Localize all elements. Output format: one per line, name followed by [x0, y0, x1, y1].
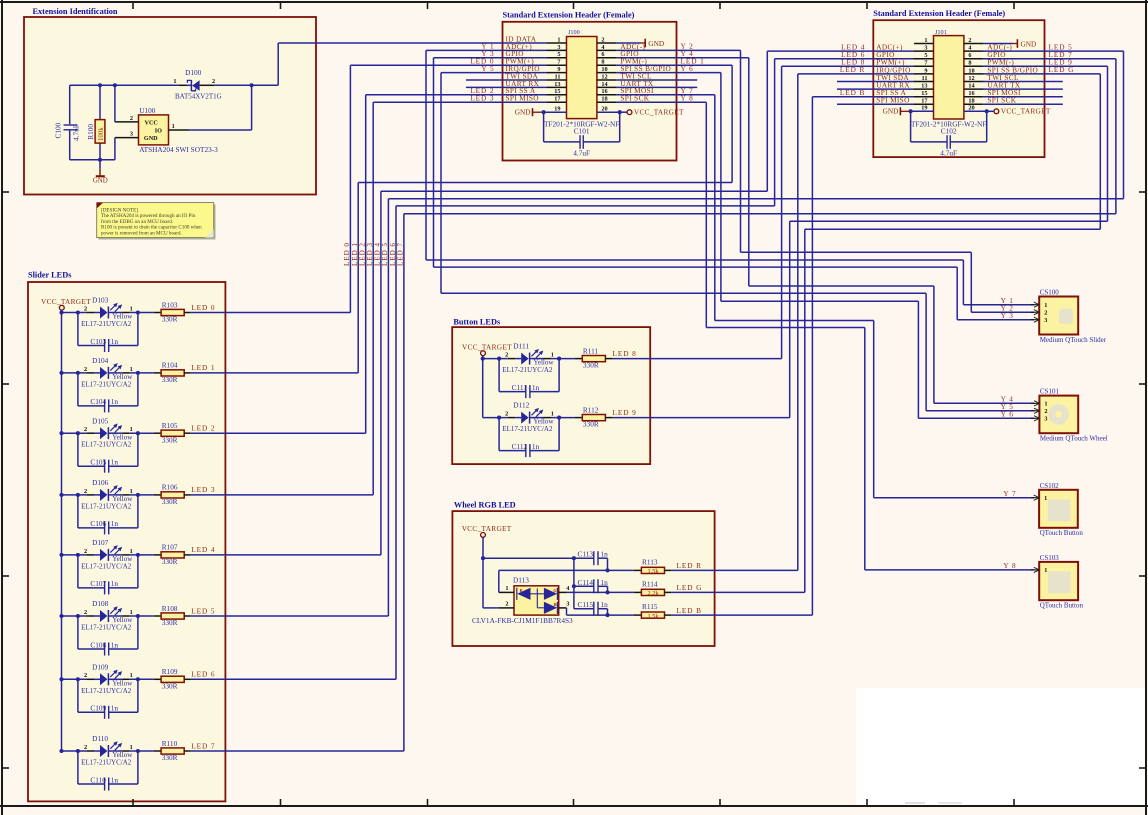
net label Y 1 [481, 42, 494, 51]
wire net LED_1 [358, 65, 732, 373]
capacitor C110 1n [78, 751, 138, 791]
svg-text:1.5k: 1.5k [647, 613, 659, 620]
svg-text:EL17-21UYC/A2: EL17-21UYC/A2 [81, 562, 132, 570]
J101 pin name TWI SCL [987, 73, 1019, 82]
svg-text:7: 7 [557, 59, 560, 66]
svg-text:1: 1 [172, 123, 175, 130]
wire J101 pin2 to GND [983, 43, 1017, 45]
net label LED 4 (rotated) [374, 242, 382, 266]
svg-text:9: 9 [924, 67, 927, 74]
section box: Wheel RGB LED [452, 511, 714, 646]
led D109 [81, 662, 133, 694]
J100 pin name ADC(+) [506, 42, 533, 51]
svg-text:EL17-21UYC/A2: EL17-21UYC/A2 [81, 687, 132, 695]
svg-text:20: 20 [968, 105, 974, 112]
svg-text:6: 6 [968, 52, 971, 59]
led D107 anode wire [62, 553, 87, 557]
svg-text:LED R: LED R [677, 561, 702, 570]
wire stub TWI_SCL at J100 [617, 79, 698, 81]
svg-text:1n: 1n [601, 578, 609, 587]
net label LED 0 [191, 303, 215, 312]
wire net LED_6 [396, 59, 914, 680]
J101 pin 7 lead [914, 60, 934, 67]
section box: Standard Extension Header (Female) [503, 22, 677, 161]
ground symbol at J101 pin 19 [883, 107, 911, 116]
wire net LED_9 [790, 66, 1108, 417]
svg-text:2: 2 [84, 744, 87, 751]
svg-text:C106: C106 [90, 519, 106, 528]
svg-text:1: 1 [924, 37, 927, 44]
J100 pin name TWI SDA [506, 71, 539, 80]
J101 pin name TWI SDA [876, 73, 909, 82]
svg-text:1.5k: 1.5k [647, 568, 659, 575]
J101 pin 19 lead [911, 105, 934, 112]
svg-text:14: 14 [968, 83, 975, 90]
net label Y 7 at CS102 [1003, 489, 1016, 498]
net label LED 9 [613, 408, 637, 417]
svg-text:D104: D104 [92, 356, 109, 365]
qtouch sensor CS100 [1031, 289, 1107, 344]
svg-text:1n: 1n [111, 337, 119, 346]
section title: Button LEDs [453, 318, 501, 327]
svg-text:Medium QTouch Wheel: Medium QTouch Wheel [1040, 435, 1108, 443]
wire net Y_2 [617, 50, 1035, 312]
J101 pin name ADC(+) [876, 43, 903, 52]
svg-text:Button LEDs: Button LEDs [453, 318, 501, 327]
svg-text:C111: C111 [512, 383, 528, 392]
net label Y 8 at CS103 [1003, 561, 1016, 570]
svg-text:LED 6: LED 6 [191, 670, 215, 679]
net label LED 2 (rotated) [359, 242, 367, 266]
J101 pin name UART RX [876, 81, 910, 90]
resistor R100 [86, 85, 105, 160]
svg-text:1: 1 [130, 426, 133, 433]
J101 pin 16 lead [964, 90, 984, 97]
svg-text:R107: R107 [162, 543, 178, 552]
net label LED 8 [841, 58, 865, 67]
svg-text:LED 1: LED 1 [191, 363, 215, 372]
svg-text:Y 7: Y 7 [1003, 489, 1016, 498]
svg-text:1: 1 [173, 78, 176, 85]
J101 pin 9 lead [914, 67, 934, 74]
svg-text:1: 1 [505, 585, 508, 592]
svg-text:R105: R105 [162, 421, 178, 430]
capacitor C108 1n [78, 616, 138, 656]
wire R114 to net LED_G [671, 591, 805, 593]
svg-text:C114: C114 [578, 578, 594, 587]
net label LED 7 [1049, 50, 1073, 59]
J100 pin name PWM(-) [620, 57, 647, 66]
svg-text:R112: R112 [583, 405, 599, 414]
wire stub TWI_SCL at J101 [982, 81, 1062, 83]
wire resistor R111 to net LED 8 [612, 358, 782, 360]
svg-text:2: 2 [84, 305, 87, 312]
svg-text:7: 7 [924, 60, 927, 67]
wire net LED_B [812, 97, 914, 615]
J100 pin 2 lead [597, 36, 617, 43]
svg-text:QTouch Button: QTouch Button [1040, 602, 1084, 610]
net label LED 2 [470, 86, 494, 95]
resistor R107 330R [154, 543, 191, 566]
connector J101 body [934, 29, 964, 119]
led D112 [502, 401, 554, 433]
J101 pin name SPI MISO [876, 96, 909, 105]
resistor R109 330R [154, 667, 191, 690]
J100 pin 4 lead [597, 44, 617, 51]
svg-text:2: 2 [968, 37, 971, 44]
svg-text:GND: GND [1021, 40, 1037, 49]
net label Y 1 at CS100 [1001, 296, 1014, 305]
svg-text:D110: D110 [92, 734, 108, 743]
section box: Button LEDs [452, 327, 650, 464]
svg-text:16: 16 [601, 88, 607, 95]
J101 pin name UART TX [987, 81, 1021, 90]
J101 pin 8 lead [964, 60, 984, 67]
J100 pin 8 lead [597, 59, 617, 66]
net label LED 3 [470, 93, 494, 102]
J101 pin name SPI SS B/GPIO [987, 65, 1038, 74]
svg-text:GND: GND [515, 107, 531, 116]
svg-text:19: 19 [921, 105, 927, 112]
resistor R106 330R [154, 483, 191, 506]
led D108 [81, 599, 133, 631]
J101 pin 4 lead [964, 45, 984, 52]
svg-text:R: R [520, 588, 523, 593]
capacitor C112 1n [499, 418, 559, 458]
svg-text:D100: D100 [185, 68, 202, 77]
wire J101 pin20 to capacitor C102 [950, 111, 986, 142]
svg-text:LED 0: LED 0 [191, 303, 215, 312]
svg-text:EL17-21UYC/A2: EL17-21UYC/A2 [502, 366, 553, 374]
svg-text:CLV1A-FKB-CJ1M1F1BB7R4S3: CLV1A-FKB-CJ1M1F1BB7R4S3 [472, 616, 573, 625]
wire J101 pin19 to capacitor C102 [911, 111, 947, 142]
svg-text:D106: D106 [92, 478, 109, 487]
led D106 [81, 478, 133, 510]
svg-text:VCC: VCC [145, 119, 158, 126]
svg-text:Extension Identification: Extension Identification [33, 7, 118, 16]
svg-text:12: 12 [601, 73, 607, 80]
J100 pin 6 lead [597, 51, 617, 58]
svg-text:2: 2 [601, 36, 604, 43]
svg-text:5: 5 [557, 51, 560, 58]
svg-text:D113: D113 [513, 576, 529, 585]
J100 pin 18 lead [597, 96, 617, 103]
net label LED 8 [613, 349, 637, 358]
section title: Extension Identification [33, 7, 118, 16]
net label LED 1 (rotated) [351, 242, 359, 266]
led D103 anode wire [62, 310, 87, 314]
wire stub TWI_SDA at J100 [466, 79, 547, 81]
led D104 [81, 356, 133, 388]
svg-text:1: 1 [1044, 567, 1047, 574]
svg-text:1n: 1n [601, 550, 609, 559]
svg-text:CS102: CS102 [1040, 482, 1060, 490]
net label Y 8 [681, 93, 694, 102]
wire net LED_8 [782, 66, 914, 358]
wire stub SPI_SCK at J101 [982, 103, 1062, 105]
J100 pin 14 lead [597, 81, 617, 88]
J100 pin 5 lead [547, 51, 567, 58]
svg-text:1: 1 [130, 548, 133, 555]
svg-text:18: 18 [601, 96, 607, 103]
svg-text:C105: C105 [90, 458, 106, 467]
svg-text:B: B [554, 602, 557, 607]
svg-text:R104: R104 [162, 361, 178, 370]
svg-text:1n: 1n [111, 704, 119, 713]
J101 pin 15 lead [914, 90, 934, 97]
wire net GND bottom rail in Extension Identification [70, 158, 115, 162]
svg-text:17: 17 [554, 96, 560, 103]
svg-text:C109: C109 [90, 704, 106, 713]
ic U100 ATSHA204 [115, 106, 218, 154]
J101 pin name PWM(+) [876, 58, 905, 67]
svg-text:2: 2 [505, 411, 508, 418]
J101 pin 17 lead [914, 98, 934, 105]
svg-text:330R: 330R [583, 420, 599, 429]
net label LED 6 [191, 670, 215, 679]
net label LED 5 (rotated) [381, 242, 389, 266]
svg-text:Y 6: Y 6 [1001, 409, 1014, 418]
slider VCC rail wire [59, 310, 63, 753]
svg-text:2: 2 [84, 488, 87, 495]
J100 pin name UART TX [620, 79, 654, 88]
svg-text:3: 3 [557, 44, 560, 51]
wire net LED_0 [350, 65, 547, 312]
wire stub SPI_MISO at J101 [837, 103, 914, 105]
svg-text:R111: R111 [583, 346, 599, 355]
resistor R108 330R [154, 604, 191, 627]
svg-text:18: 18 [968, 98, 974, 105]
svg-text:1: 1 [1044, 401, 1047, 408]
svg-text:D107: D107 [92, 538, 109, 547]
J100 pin name IRQ/GPIO [506, 64, 540, 73]
svg-text:330R: 330R [162, 618, 178, 627]
capacitor C100 [54, 85, 81, 160]
wire J100 pin20 to capacitor C101 [583, 112, 619, 142]
power port VCC_TARGET at J100 pin 20 [620, 108, 684, 117]
wire net Y_6 [617, 73, 1035, 419]
resistor R113 1.5k [634, 557, 671, 575]
wire D105 cathode to resistor R105 [130, 431, 154, 435]
svg-text:13: 13 [921, 83, 927, 90]
svg-text:17: 17 [921, 98, 927, 105]
svg-text:1: 1 [1044, 495, 1047, 502]
J101 pin name ADC(-) [987, 43, 1012, 52]
svg-text:1n: 1n [111, 640, 119, 649]
J100 pin 10 lead [597, 66, 617, 73]
svg-text:VCC_TARGET: VCC_TARGET [462, 524, 512, 533]
svg-text:3: 3 [1044, 317, 1047, 324]
J100 pin name GPIO [506, 49, 524, 58]
wire net ID_DATA top rail in Extension Identification [70, 43, 547, 87]
svg-text:Standard Extension Header (Fem: Standard Extension Header (Female) [873, 9, 1005, 18]
svg-text:330R: 330R [162, 557, 178, 566]
net label LED 7 (rotated) [397, 242, 405, 266]
wire U100 pin2 to top rail [114, 85, 116, 122]
junction at J101 pin 20 [985, 109, 989, 113]
resistor R112 330R [575, 405, 612, 428]
led D105 [81, 416, 133, 448]
svg-text:GND: GND [883, 107, 899, 116]
wire J100 pin19 to capacitor C101 [544, 112, 580, 142]
J100 pin 20 lead [597, 106, 620, 113]
svg-text:19: 19 [554, 106, 560, 113]
svg-text:6: 6 [601, 51, 604, 58]
J101 pin 18 lead [964, 98, 984, 105]
svg-text:3: 3 [566, 601, 569, 608]
ground symbol GND in Extension Identification [93, 160, 108, 185]
svg-text:16: 16 [968, 90, 974, 97]
wire net LED_5 [388, 51, 1123, 616]
svg-text:2: 2 [130, 115, 133, 122]
net label LED 0 [470, 56, 494, 65]
svg-text:LED G: LED G [677, 583, 703, 592]
svg-text:R113: R113 [642, 557, 658, 566]
svg-text:Medium QTouch Slider: Medium QTouch Slider [1040, 336, 1107, 344]
J101 pin name SPI MOSI [987, 88, 1021, 97]
capacitor C107 1n [78, 555, 138, 595]
net label Y 6 at CS101 [1001, 409, 1014, 418]
svg-text:U100: U100 [139, 106, 156, 115]
J100 pin name SPI SS B/GPIO [620, 64, 671, 73]
svg-text:CS101: CS101 [1040, 388, 1060, 396]
svg-text:2: 2 [84, 672, 87, 679]
net label LED 1 [681, 56, 705, 65]
J100 pin name TWI SCL [620, 71, 652, 80]
net label LED 7 [191, 741, 215, 750]
J101 pin 10 lead [964, 67, 984, 74]
svg-text:G: G [553, 588, 556, 593]
resistor R103 330R [154, 300, 191, 323]
J100 pin 12 lead [597, 73, 617, 80]
net label Y 3 at CS100 [1001, 311, 1014, 320]
wire D112 cathode to resistor R112 [551, 416, 575, 420]
svg-text:R115: R115 [642, 602, 658, 611]
svg-text:TF201-2*10RGF-W2-NF: TF201-2*10RGF-W2-NF [911, 119, 986, 128]
J101 pin name SPI SCK [987, 96, 1016, 105]
wire resistor R110 to net LED 7 [191, 750, 404, 752]
power port VCC_TARGET in Slider LEDs [41, 297, 91, 313]
qtouch sensor CS103 [1031, 554, 1084, 610]
svg-text:1n: 1n [111, 775, 119, 784]
resistor R115 1.5k [634, 602, 671, 620]
svg-text:IO: IO [155, 128, 162, 135]
connector J100 body [567, 29, 597, 118]
svg-text:EL17-21UYC/A2: EL17-21UYC/A2 [81, 380, 132, 388]
svg-text:EL17-21UYC/A2: EL17-21UYC/A2 [502, 425, 553, 433]
wire resistor R105 to net LED 2 [191, 432, 366, 434]
J101 pin 20 lead [964, 105, 987, 112]
svg-text:2: 2 [1044, 310, 1047, 317]
J100 pin 15 lead [547, 88, 567, 95]
svg-text:R106: R106 [162, 483, 178, 492]
J100 pin name GPIO [620, 49, 638, 58]
svg-text:2: 2 [505, 601, 508, 608]
led D106 anode wire [62, 493, 87, 497]
capacitor C103 1n [78, 313, 138, 353]
svg-text:LED 5: LED 5 [191, 606, 215, 615]
wire net LED_3 [373, 102, 547, 495]
diode D100 [173, 68, 221, 101]
wire D113 pin4 to LED_G row [567, 590, 634, 594]
svg-text:C104: C104 [90, 397, 106, 406]
J100 pin 3 lead [547, 44, 567, 51]
wire net LED_4 [381, 51, 914, 555]
svg-text:QTouch Button: QTouch Button [1040, 529, 1084, 537]
svg-text:C108: C108 [90, 640, 106, 649]
wire J100 pin2 to GND [617, 42, 646, 44]
junction at J100 pin 20 [618, 110, 622, 114]
svg-text:1: 1 [130, 305, 133, 312]
led D103 [81, 296, 133, 328]
svg-text:1: 1 [130, 488, 133, 495]
wire stub UART_RX at J100 [466, 86, 547, 88]
button VCC rail wire [481, 357, 485, 418]
svg-text:4.7nF: 4.7nF [72, 124, 81, 141]
svg-text:330R: 330R [583, 361, 599, 370]
svg-text:2: 2 [84, 426, 87, 433]
net label LED 6 [841, 50, 865, 59]
wire D107 cathode to resistor R107 [130, 553, 154, 557]
svg-text:Y 8: Y 8 [1003, 561, 1016, 570]
led D109 anode wire [62, 677, 87, 681]
led D107 [81, 538, 133, 570]
svg-text:100k: 100k [98, 127, 105, 141]
wire resistor R106 to net LED 3 [191, 494, 373, 496]
net label Y 2 at CS100 [1001, 303, 1014, 312]
svg-text:EL17-21UYC/A2: EL17-21UYC/A2 [81, 759, 132, 767]
J101 pin 14 lead [964, 83, 984, 90]
svg-text:LED 7: LED 7 [191, 741, 215, 750]
title block white cover [856, 688, 1146, 806]
svg-text:2.2k: 2.2k [647, 590, 659, 597]
net label LED R [677, 561, 702, 570]
wire D113 pin1 to LED_R row [499, 568, 634, 592]
svg-text:15: 15 [921, 90, 927, 97]
section box: Extension Identification [24, 17, 316, 195]
power port VCC_TARGET at J101 pin 20 [987, 107, 1051, 116]
svg-text:LED 6: LED 6 [389, 242, 397, 266]
svg-text:LED 9: LED 9 [613, 408, 637, 417]
svg-text:2: 2 [84, 609, 87, 616]
ground symbol GND at J100 pin2 [645, 39, 664, 49]
svg-text:1n: 1n [111, 458, 119, 467]
svg-text:2: 2 [84, 366, 87, 373]
svg-text:LED 2: LED 2 [191, 424, 215, 433]
svg-text:C100: C100 [54, 122, 63, 138]
svg-text:ATSHA204 SWI SOT23-3: ATSHA204 SWI SOT23-3 [139, 145, 218, 154]
svg-text:2: 2 [505, 352, 508, 359]
svg-text:D109: D109 [92, 662, 109, 671]
svg-text:J100: J100 [568, 29, 580, 36]
svg-text:12: 12 [968, 75, 974, 82]
capacitor C104 1n [78, 373, 138, 413]
wire D106 cathode to resistor R106 [130, 493, 154, 497]
svg-text:1: 1 [130, 609, 133, 616]
svg-text:330R: 330R [162, 435, 178, 444]
section title: Standard Extension Header (Female) [503, 11, 635, 20]
wheel VCC rail wire [481, 556, 499, 608]
svg-text:LED B: LED B [677, 606, 702, 615]
wire U100 pin1 IO to ID_DATA rail [189, 85, 251, 130]
svg-text:LED 7: LED 7 [397, 242, 405, 266]
J101 pin 12 lead [964, 75, 984, 82]
qtouch sensor CS102 [1031, 482, 1084, 537]
power port VCC_TARGET in Wheel RGB LED [462, 524, 512, 558]
wire resistor R109 to net LED 6 [191, 678, 396, 680]
svg-text:C110: C110 [90, 775, 106, 784]
svg-text:330R: 330R [162, 375, 178, 384]
